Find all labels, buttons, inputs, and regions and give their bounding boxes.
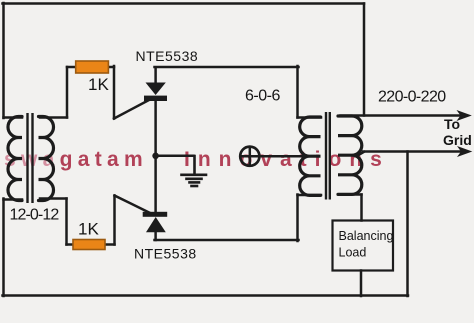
svg-text:swagatam: swagatam bbox=[4, 148, 148, 171]
svg-text:1K: 1K bbox=[88, 75, 109, 94]
svg-text:6-0-6: 6-0-6 bbox=[245, 88, 280, 105]
svg-text:Grid: Grid bbox=[443, 132, 472, 148]
svg-text:To: To bbox=[444, 116, 460, 132]
svg-text:12-0-12: 12-0-12 bbox=[10, 207, 60, 224]
svg-text:NTE5538: NTE5538 bbox=[134, 246, 197, 262]
svg-text:NTE5538: NTE5538 bbox=[136, 48, 199, 64]
svg-text:1K: 1K bbox=[78, 220, 99, 239]
svg-text:Load: Load bbox=[339, 246, 367, 260]
svg-text:Balancing: Balancing bbox=[339, 229, 394, 243]
svg-text:220-0-220: 220-0-220 bbox=[378, 89, 446, 106]
